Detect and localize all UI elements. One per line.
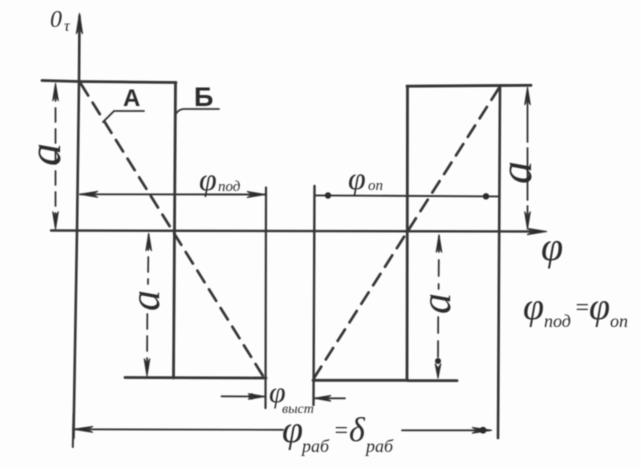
extension line x=266: [264, 188, 267, 409]
dimension φоп: left dot: [325, 192, 331, 198]
svg-text:а: а: [123, 290, 169, 311]
svg-text:а: а: [490, 161, 541, 184]
svg-text:φ: φ: [541, 224, 563, 269]
dimension a upper-right: bottom arrow: [525, 212, 531, 230]
right pulse left edge: [406, 86, 409, 380]
svg-text:φ: φ: [282, 409, 303, 451]
dimension φпод: line: [80, 193, 265, 195]
svg-text:раб: раб: [364, 436, 394, 456]
dimension φвыст: right segment with arrow: [315, 397, 346, 399]
dimension φраб: left arrow: [73, 426, 93, 432]
dimension φраб: left tick: [72, 414, 75, 447]
dimension a lower-left: label а: [123, 290, 169, 311]
svg-text:τ: τ: [64, 18, 71, 35]
dimension φраб: line left part: [73, 428, 283, 431]
dimension φвыст: left segment with dot and arrow: [222, 395, 265, 397]
dimension φоп: label φоп: [348, 160, 383, 196]
svg-text:раб: раб: [300, 436, 330, 456]
dimension φпод: left arrow: [80, 191, 99, 197]
label Б with leader: [175, 82, 219, 116]
svg-text:φ: φ: [589, 286, 610, 328]
label φ (axis): [541, 224, 563, 269]
dimension φоп: right dot: [483, 193, 489, 199]
dimension φвыст: label φвыст: [269, 376, 314, 417]
svg-text:=: =: [574, 295, 590, 321]
svg-text:под: под: [218, 179, 241, 195]
svg-text:φ: φ: [523, 286, 544, 328]
right pulse right edge / extension line: [498, 86, 500, 438]
svg-text:а: а: [414, 293, 460, 314]
dimension a lower-left: bottom arrow: [144, 359, 150, 377]
dimension a upper-right: label а: [490, 161, 541, 184]
dimension a lower-right: bottom dot and arrow: [435, 358, 441, 364]
equation φпод = φоп: [523, 286, 628, 331]
dimension φраб: right arrow: [472, 427, 492, 433]
dimension a upper-left: label а: [19, 143, 70, 166]
svg-text:оп: оп: [368, 178, 383, 194]
right pulse top edge with a-dim tick: [407, 84, 531, 88]
dimension φпод: label φпод: [199, 161, 241, 197]
left pulse right edge (line Б): [174, 83, 176, 379]
dimension φраб: line right part: [402, 429, 490, 431]
extension line x=314: [314, 186, 315, 405]
dashed diagonal right: [314, 88, 499, 378]
dimension a lower-right: label а: [414, 293, 460, 314]
svg-text:оп: оп: [610, 311, 628, 331]
svg-text:δ: δ: [349, 412, 366, 449]
dimension a upper-left: top arrow: [53, 83, 59, 101]
dimension φоп: line: [315, 195, 499, 196]
dimension a upper-left: line: [55, 87, 57, 226]
dimension φраб: label φраб = δраб: [282, 409, 394, 456]
dimension a lower-left: line: [147, 235, 149, 373]
svg-text:А: А: [123, 85, 140, 112]
svg-text:Б: Б: [194, 82, 213, 112]
vertical axis Oт: [74, 13, 83, 438]
dimension a lower-left: top arrow: [146, 233, 152, 251]
dimension a upper-right: line: [527, 90, 529, 226]
label А with leader: [103, 85, 144, 122]
svg-text:под: под: [544, 311, 571, 331]
right pulse bottom edge: [313, 379, 457, 382]
dimension a lower-right: top arrow: [436, 235, 442, 253]
left pulse bottom edge: [125, 376, 266, 379]
label 0т (origin): [50, 7, 71, 35]
left pulse top edge: [42, 81, 176, 83]
svg-text:=: =: [333, 418, 349, 444]
dimension a upper-left: bottom arrow: [53, 212, 59, 230]
svg-text:φ: φ: [348, 160, 366, 196]
dashed line А (left diagonal): [81, 84, 263, 376]
dimension φпод: right arrow: [247, 191, 266, 197]
svg-text:φ: φ: [199, 161, 217, 197]
horizontal axis φ: [51, 228, 547, 234]
dimension a lower-right: line: [438, 236, 439, 360]
svg-text:а: а: [19, 143, 70, 166]
svg-text:0: 0: [50, 7, 62, 33]
dimension a upper-right: top arrow: [525, 87, 531, 105]
